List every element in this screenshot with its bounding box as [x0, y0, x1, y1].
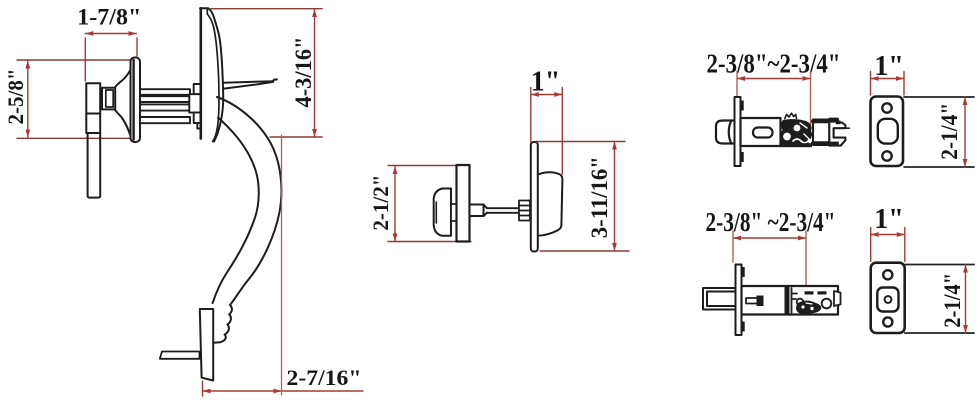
svg-text:1": 1": [874, 204, 904, 235]
knob neck: [102, 88, 115, 110]
dimension 2-1/4" lines (bottom): [905, 265, 974, 334]
svg-text:4-3/16": 4-3/16": [291, 37, 316, 108]
bottom screw bar: [160, 352, 200, 359]
svg-text:2-7/16": 2-7/16": [287, 365, 362, 390]
thumb lever: [223, 79, 277, 89]
spindle ribbed block: [519, 201, 530, 221]
dimension 1" label (bottom faceplate): [874, 204, 904, 235]
grip inner curve: [213, 118, 259, 304]
dimension 1" lines (deadbolt): [531, 88, 563, 175]
latch bolt (top): [716, 121, 735, 144]
faceplate front view (top): [871, 97, 904, 167]
deadbolt flag detail: [746, 296, 764, 307]
dimension 1" label (deadbolt): [531, 67, 561, 98]
interior deadbolt plate: [457, 165, 470, 242]
dimension 2-5/8" lines: [17, 60, 140, 138]
svg-text:2-1/2": 2-1/2": [368, 175, 393, 231]
deadbolt bolt (bottom): [703, 288, 736, 310]
fork top band: [829, 119, 838, 123]
dimension 1-7/8" line: [85, 31, 137, 81]
dimension 2-3/8"~2-3/4" label (top latch): [707, 49, 841, 79]
dimension 2-3/8"~2-3/4" lines (bottom latch): [733, 231, 806, 301]
grip outer curve: [213, 97, 281, 343]
dimension 4-3/16" lines: [211, 9, 322, 137]
dimension 2-1/2" lines: [388, 166, 471, 242]
exterior deadbolt rose plate: [531, 142, 538, 252]
dimension 1" lines (bottom faceplate): [871, 228, 905, 262]
dimension 2-5/8" label: [3, 69, 28, 125]
dimension 2-1/4" label (top): [937, 103, 962, 160]
dimension 2-1/2" label: [368, 175, 393, 231]
svg-text:2-5/8": 2-5/8": [3, 69, 28, 125]
deadbolt faceplate bar (bottom): [736, 265, 745, 336]
dimension 2-7/16" lines: [203, 135, 364, 396]
svg-text:1-7/8": 1-7/8": [77, 5, 141, 30]
exterior plate: [200, 8, 223, 141]
dimension 1" lines (top faceplate): [871, 72, 905, 96]
dimension 1-7/8" label: [77, 5, 141, 30]
dimension 2-3/8"~2-3/4" label (bottom latch): [706, 207, 836, 237]
bottom foot plate: [200, 309, 213, 381]
knob flare: [115, 70, 130, 136]
dimension 1" label (top faceplate): [874, 51, 904, 82]
interior rose: [131, 58, 141, 143]
svg-text:2-1/4": 2-1/4": [937, 103, 962, 160]
thumbturn neck: [451, 204, 457, 221]
latch fork end (top): [829, 119, 845, 146]
dimension 3-11/16" label: [587, 156, 612, 238]
dimension 4-3/16" label: [291, 37, 316, 108]
exterior cylinder dome: [538, 172, 563, 236]
dimension 2-1/4" label (bottom): [940, 273, 965, 328]
latch body (top): [741, 118, 781, 146]
dimension 2-7/16" label: [287, 365, 362, 390]
svg-text:2-1/4": 2-1/4": [940, 273, 965, 328]
faceplate front view (bottom): [871, 263, 905, 333]
dimension 2-1/4" lines (top): [904, 97, 974, 167]
svg-text:2-3/8" ~2-3/4": 2-3/8" ~2-3/4": [706, 207, 836, 237]
latch connector bar (top): [813, 120, 829, 146]
deadbolt right tab (bottom): [834, 291, 841, 306]
dimension 2-3/8"~2-3/4" lines (top latch): [737, 72, 811, 129]
mounting block: [189, 84, 200, 129]
latch mechanism scribble (top): [780, 113, 812, 147]
thumbturn knob: [434, 189, 451, 236]
svg-text:3-11/16": 3-11/16": [587, 156, 612, 238]
fork tick (top): [845, 127, 849, 129]
svg-text:2-3/8"~2-3/4": 2-3/8"~2-3/4": [707, 49, 841, 79]
latch faceplate bar (top): [735, 97, 744, 166]
dimension 3-11/16" lines: [536, 142, 629, 252]
deadbolt body (bottom): [742, 286, 839, 315]
fork bottom band: [829, 142, 839, 146]
deadbolt mechanism scribble (bottom): [785, 287, 832, 314]
deadbolt spindle: [470, 205, 520, 217]
interior lever handle: [86, 83, 100, 197]
spindle bars: [140, 89, 190, 123]
fork step: [836, 121, 841, 125]
